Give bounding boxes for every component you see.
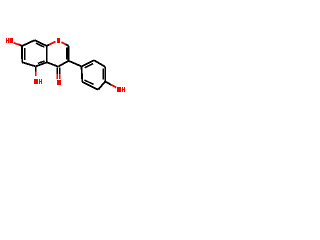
wire: bond C3-C4 (58, 61, 68, 67)
wire: bond C2'-C3' (94, 60, 105, 67)
wire: bond C4=O4 right line red half (59, 74, 61, 79)
chemical structure: genistein (4',5,7-trihydroxyisoflavone) (0, 0, 130, 130)
wire: bond C2=C3 inner (66, 47, 68, 59)
label HO (on C7): O glyph (9, 38, 12, 43)
label OH (on C4'): H glyph (122, 87, 125, 92)
wire: bond C4'-O4' red half (111, 85, 116, 88)
wire: bond C4-C4a (47, 62, 58, 66)
wire: bond C5-O5 red half (35, 72, 37, 77)
wire: bond C1'=C2' main (82, 60, 95, 66)
wire: bond C6'-C1' (81, 66, 84, 82)
wire: bond C8a-O1 red half (49, 42, 55, 45)
label OH (on C5): O glyph (34, 79, 38, 84)
wire: bond C4=O4 left line red half (56, 74, 58, 79)
wire: bond C3'=C4' inner (102, 68, 104, 79)
label OH (on C5): H glyph (39, 79, 42, 84)
label OH (on C4'): O glyph (117, 87, 121, 92)
wire: bond C4'-C5' (98, 82, 105, 90)
wire: bond C4a-C8a (46, 46, 48, 62)
label O4 ketone oxygen (57, 80, 61, 85)
wire: bond C4a=C5 main (36, 62, 47, 66)
label O1 ring oxygen (57, 38, 60, 43)
wire: bond C7-C8 (22, 40, 35, 46)
wire: bond C6=C7 main (21, 46, 23, 62)
wire: bond O7(HO)-C7 red half (14, 43, 20, 45)
wire: bond C3-C1' (69, 61, 82, 67)
wire: bond C4=O4 right line black half (59, 67, 61, 74)
wire: bond O7(HO)-C7 black half (20, 45, 22, 46)
wire: bond C4=O4 left line black half (56, 67, 58, 74)
wire: bond C2=C3 main (68, 46, 70, 61)
wire: bond O1-C2 black half (66, 44, 69, 46)
wire: bond C8a-O1 black half (47, 45, 50, 46)
wire: bond C5-C6 (22, 62, 36, 66)
wire: bond C3'=C4' main (104, 67, 106, 82)
wire: bond C4'-O4' black half (105, 82, 111, 85)
wire: bond C8=C8a inner (36, 43, 44, 47)
label HO (on C7): H glyph (6, 38, 9, 43)
wire: bond C5'=C6' inner (85, 80, 94, 84)
wire: bond C5'=C6' main (82, 82, 98, 90)
background (0, 0, 130, 130)
wire: bond C5-O5 black half (35, 67, 37, 72)
wire: bond C4a=C5 inner (38, 61, 45, 64)
wire: bond C6=C7 inner (24, 48, 26, 60)
wire: bond C1'=C2' inner (85, 64, 94, 68)
wire: bond C8=C8a main (35, 40, 47, 46)
wire: bond O1-C2 red half (61, 42, 65, 44)
